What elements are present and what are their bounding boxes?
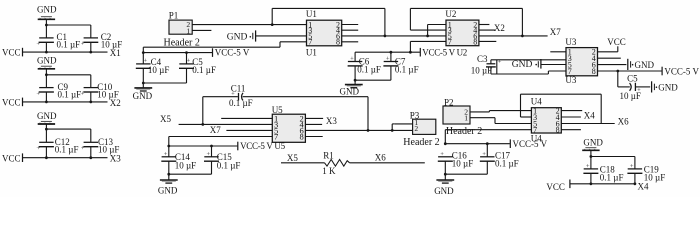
junction [45,156,48,159]
svg-text:X5: X5 [287,153,298,163]
svg-text:+: + [440,151,444,158]
svg-text:+: + [630,163,634,170]
svg-text:Header 2: Header 2 [403,137,439,148]
svg-text:0.1 µF: 0.1 µF [495,159,519,169]
power VCC [2,153,23,163]
junction [384,35,387,38]
wire [561,129,581,131]
wire [410,40,446,42]
wire [598,57,621,59]
wire [226,129,272,131]
svg-text:X3: X3 [326,116,337,126]
wire [470,117,495,119]
wire [490,67,492,74]
wire [168,146,170,157]
power VCC [2,98,23,108]
svg-text:U3: U3 [565,75,576,85]
wire [23,51,108,53]
wire [590,173,592,184]
power VCC [546,180,570,192]
svg-text:10 µF: 10 µF [148,65,169,75]
wire [355,79,391,81]
svg-text:VCC: VCC [607,37,626,47]
svg-text:GND: GND [583,137,603,147]
svg-text:U5: U5 [272,105,283,115]
svg-text:VCC-5 V: VCC-5 V [215,48,250,58]
op-amp U3 [565,37,597,85]
svg-text:GND: GND [37,111,57,121]
wire [256,35,307,37]
wire [410,7,522,9]
svg-text:0.1 µF: 0.1 µF [55,144,79,154]
capacitor C13 [81,137,120,155]
wire [305,123,322,125]
svg-text:GND: GND [37,55,57,65]
wire [445,129,531,131]
wire [143,52,212,54]
wire [445,173,487,175]
ground [37,111,57,124]
junction [185,51,188,54]
junction [367,129,370,132]
wire [444,161,446,180]
wire [281,162,325,164]
wire [186,53,188,64]
junction [271,23,274,26]
wire [90,147,92,158]
wire [168,161,170,180]
power VCC-5V port [420,47,467,57]
junction [426,35,429,38]
wire [202,97,204,125]
connector P3 [403,111,439,148]
svg-text:X7: X7 [550,27,561,37]
wire [23,157,108,159]
junction [45,73,48,76]
svg-text:+: + [206,151,210,158]
svg-text:+: + [81,90,85,97]
wire [550,51,566,53]
ground [37,5,57,20]
wire [90,129,92,142]
wire [342,29,359,31]
capacitor C10 [81,82,119,100]
wire [390,52,392,61]
wire [169,145,238,147]
op-amp U5 [272,105,306,143]
wire [600,94,602,123]
wire [548,70,566,72]
wire [305,129,412,131]
svg-text:X4: X4 [584,111,595,121]
capacitor C14 [161,151,196,171]
wire [169,136,272,138]
svg-text:+: + [81,145,85,152]
wire [46,128,90,130]
wire [598,64,627,66]
svg-text:+: + [386,56,390,63]
power GND port [628,59,655,70]
svg-text:+: + [36,41,40,48]
wire [445,143,510,145]
op-amp U2 [445,9,479,46]
wire [486,161,488,174]
svg-text:+: + [36,90,40,97]
svg-text:1: 1 [186,26,190,35]
wire [192,29,211,31]
svg-text:P1: P1 [169,11,179,21]
junction [167,173,170,176]
capacitor C7 [383,56,418,75]
svg-text:+: + [482,151,486,158]
junction [210,145,213,148]
svg-text:+: + [164,151,168,158]
wire [342,35,446,37]
svg-text:U1: U1 [306,47,317,57]
power VCC [2,48,23,58]
wire [45,124,47,142]
svg-text:0.1 µF: 0.1 µF [357,64,381,74]
wire [547,71,549,74]
svg-text:8: 8 [299,131,303,141]
wire [350,162,425,164]
resistor R1 [322,151,349,176]
wire [617,71,619,87]
svg-text:+: + [350,56,354,63]
svg-text:GND: GND [158,186,178,196]
svg-text:X4: X4 [638,182,649,192]
wire [305,117,323,119]
junction [201,123,204,126]
svg-text:0.1 µF: 0.1 µF [600,173,624,183]
svg-text:C11: C11 [231,84,246,94]
capacitor C19 [627,163,665,183]
svg-text:C3: C3 [477,54,488,64]
ground [434,180,454,196]
svg-text:U4: U4 [531,97,542,107]
svg-text:VCC-5 V U2: VCC-5 V U2 [422,47,467,57]
wire [541,64,566,66]
wire [143,46,280,48]
ground [37,55,57,68]
svg-text:GND: GND [635,60,655,70]
connector P2 [443,97,482,137]
wire [520,94,522,117]
junction [486,142,489,145]
wire [142,47,144,64]
junction [167,145,170,148]
capacitor C16 [438,151,473,169]
wire [409,41,411,52]
svg-text:+: + [81,41,85,48]
wire [168,137,170,147]
wire [561,116,581,118]
svg-text:X6: X6 [618,117,629,127]
wire [211,146,213,157]
wire [410,29,446,31]
junction [45,51,48,54]
wire [142,68,144,88]
svg-text:VCC-5 V U5: VCC-5 V U5 [240,141,285,151]
svg-text:R1: R1 [323,151,334,161]
wire [634,157,636,169]
svg-text:+: + [36,145,40,152]
svg-text:0.1 µF: 0.1 µF [229,98,253,108]
capacitor C5 [620,74,642,101]
wire [354,52,356,61]
svg-text:7: 7 [448,37,452,46]
wire [479,35,548,37]
wire [192,24,306,26]
capacitor C18 [583,163,623,183]
power VCC-5V port [662,67,699,77]
junction [142,82,145,85]
wire [45,19,47,38]
svg-text:GND: GND [340,86,360,96]
power GND port [227,30,256,42]
power VCC [607,37,626,52]
junction [444,142,447,145]
svg-text:X6: X6 [375,152,386,162]
svg-text:VCC-5 V: VCC-5 V [513,139,548,149]
wire [494,118,496,124]
wire [409,8,411,30]
svg-text:X3: X3 [110,154,121,164]
svg-text:10 µF: 10 µF [620,91,641,101]
wire [179,123,273,125]
wire [590,150,592,169]
capacitor C17 [480,151,519,169]
svg-text:X5: X5 [160,114,171,124]
ground [158,180,178,196]
svg-text:GND: GND [37,5,57,15]
wire [491,73,549,75]
svg-text:X2: X2 [110,98,121,108]
svg-text:VCC: VCC [546,182,565,192]
wire [271,8,273,24]
svg-text:+: + [586,163,590,170]
svg-text:0.1 µF: 0.1 µF [395,64,419,74]
svg-text:1: 1 [464,113,468,122]
wire [280,41,307,43]
wire [490,60,492,64]
wire [390,66,392,80]
wire [495,123,531,125]
capacitor C11 [229,84,253,108]
wire [521,116,532,118]
wire [143,82,186,84]
junction [45,24,48,27]
capacitor C15 [204,151,240,171]
svg-text:GND: GND [227,33,248,43]
wire [635,86,650,88]
svg-text:1 K: 1 K [322,166,336,176]
wire [384,8,386,36]
power GND port [512,59,541,70]
wire [355,51,420,53]
wire [479,29,495,31]
wire [23,101,108,103]
wire [342,24,359,26]
junction [142,51,145,54]
svg-text:+: + [143,58,147,65]
svg-text:VCC: VCC [2,48,21,58]
capacitor C1 [36,32,80,50]
wire [221,117,272,119]
svg-text:8: 8 [592,67,596,76]
svg-text:7: 7 [308,38,312,47]
junction [616,70,619,73]
junction [390,51,393,54]
wire [186,68,188,83]
svg-text:8: 8 [473,37,477,46]
ground [582,137,603,150]
wire [367,97,369,131]
wire [45,92,47,102]
junction [521,35,524,38]
wire [90,92,92,102]
wire [598,70,662,72]
wire [90,25,92,38]
wire [45,42,47,52]
wire [634,173,636,184]
wire [169,173,212,175]
wire [354,66,356,85]
capacitor C9 [36,82,81,100]
svg-text:8: 8 [336,38,340,47]
svg-text:VCC-5 V: VCC-5 V [664,67,699,77]
junction [45,128,48,131]
svg-text:GND: GND [434,186,454,196]
svg-text:7: 7 [274,131,278,141]
capacitor C12 [36,137,78,155]
capacitor C2 [81,32,122,50]
junction [409,51,412,54]
wire [392,123,395,125]
power VCC-5V port [213,48,250,58]
svg-text:X7: X7 [210,125,221,135]
svg-text:+: + [187,58,191,65]
wire [342,41,359,43]
svg-text:X2: X2 [494,23,505,33]
wire [45,69,47,88]
capacitor C6 [348,56,381,75]
wire [45,147,47,158]
wire [395,123,413,125]
wire [598,51,618,53]
svg-text:0.1 µF: 0.1 µF [58,89,82,99]
wire [211,161,213,174]
svg-text:GND: GND [512,60,533,70]
svg-text:2: 2 [414,124,418,133]
wire [488,111,490,112]
wire [272,7,385,9]
wire [521,8,523,36]
op-amp U1 [306,9,342,57]
junction [45,101,48,104]
wire [591,156,635,158]
wire [561,123,614,125]
wire [618,86,630,88]
svg-text:U3: U3 [565,37,576,47]
svg-text:8: 8 [556,126,560,135]
wire [279,42,281,47]
wire [496,60,498,74]
svg-text:VCC: VCC [2,153,21,163]
junction [444,173,447,176]
wire [305,136,322,138]
svg-text:10 µF: 10 µF [452,159,473,169]
wire [90,75,92,88]
wire [391,124,393,130]
wire [203,96,238,98]
wire [470,111,489,113]
ground [340,85,363,97]
wire [444,130,446,144]
capacitor C3 [471,54,502,75]
wire [479,40,496,42]
wire [479,24,490,26]
svg-text:VCC: VCC [2,98,21,108]
wire [561,110,582,112]
svg-text:GND: GND [133,91,153,101]
svg-text:C5: C5 [627,74,638,84]
wire [489,110,531,112]
wire [90,42,92,52]
ground [133,88,153,101]
wire [486,144,488,157]
wire [243,96,368,98]
wire [46,24,90,26]
wire [428,24,446,26]
junction [354,79,357,82]
wire [570,183,635,185]
wire [521,93,602,95]
svg-text:Header 2: Header 2 [446,126,482,137]
junction [590,182,593,185]
svg-text:X1: X1 [110,48,121,58]
svg-text:U2: U2 [445,9,456,19]
power VCC-5V port [238,141,286,151]
wire [491,59,566,61]
svg-text:0.1 µF: 0.1 µF [217,160,241,170]
svg-text:0.1 µF: 0.1 µF [57,40,81,50]
svg-text:0.1 µF: 0.1 µF [192,65,216,75]
wire [427,25,429,36]
capacitor C5 [179,57,216,75]
op-amp U4 [531,97,562,144]
svg-text:U1: U1 [306,9,317,19]
junction [590,155,593,158]
wire [46,74,90,76]
power GND port [652,81,679,92]
capacitor C4 [136,57,170,75]
connector P1 [164,11,200,49]
svg-text:GND: GND [658,83,678,93]
svg-text:10 µF: 10 µF [471,65,492,75]
svg-text:10 µF: 10 µF [175,160,196,170]
power VCC-5V port [510,139,547,149]
